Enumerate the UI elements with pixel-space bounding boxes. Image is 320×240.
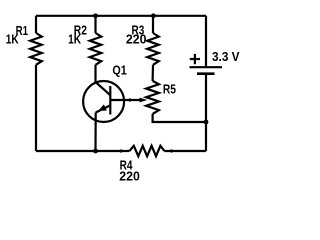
svg-text:3.3 V: 3.3 V	[212, 50, 240, 64]
R5 wiper arrowhead	[140, 98, 148, 103]
wire R3 to R5	[152, 65, 155, 81]
svg-text:Q1: Q1	[112, 64, 126, 78]
svg-text:1K: 1K	[68, 32, 81, 46]
wire Q1 emitter to bottom rail	[94, 113, 96, 152]
transistor Q1 emitter diagonal	[96, 105, 111, 112]
wire bottom rail right of R4	[164, 150, 206, 152]
wire top rail	[36, 15, 206, 17]
wire R5 bottom lead	[153, 114, 206, 122]
svg-text:1K: 1K	[6, 32, 19, 46]
wire right rail top (to battery +)	[205, 16, 207, 67]
transistor Q1 base bar	[109, 86, 111, 115]
wire R2 to Q1 collector	[94, 65, 96, 82]
resistor R2	[90, 33, 102, 65]
pin dot base wire	[128, 98, 131, 101]
wire R2 top lead	[94, 16, 96, 33]
junction node R5/battery	[204, 120, 209, 125]
wire left rail upper lead to R1	[35, 16, 37, 33]
battery B1 positive plate	[190, 66, 223, 68]
junction node R3 top	[151, 13, 156, 18]
resistor R4	[129, 146, 164, 156]
svg-text:220: 220	[126, 33, 147, 47]
battery B1 negative plate	[197, 72, 215, 75]
wire Q1 base to R5 wiper	[110, 99, 140, 101]
battery plus sign	[190, 58, 200, 60]
potentiometer R5 body	[146, 81, 159, 114]
pin dot R4 left	[119, 149, 122, 152]
junction node R2 top	[93, 13, 98, 18]
wire right rail bottom (battery - to bottom rail)	[205, 74, 207, 151]
wire left rail lower lead from R1 to bottom rail	[35, 65, 37, 151]
svg-text:220: 220	[119, 170, 140, 184]
pin dot R4 right	[170, 149, 173, 152]
svg-text:R5: R5	[163, 83, 176, 97]
Q1 emitter arrowhead	[98, 104, 107, 111]
wire R3 top lead	[152, 16, 154, 33]
transistor Q1 body circle	[83, 81, 124, 122]
transistor Q1 collector diagonal	[96, 82, 111, 95]
resistor R1	[30, 33, 42, 65]
resistor R3	[147, 33, 159, 65]
wire bottom rail left of R4	[36, 150, 129, 152]
junction node emitter/bottom rail	[93, 149, 98, 154]
